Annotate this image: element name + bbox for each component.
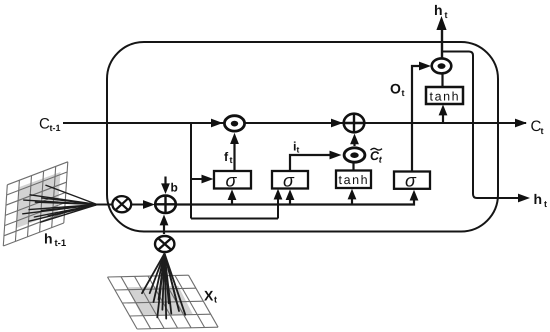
arrowhead into add node — [331, 119, 343, 128]
wire: conv product to add(b) — [132, 204, 144, 206]
convolution fan from x grid — [142, 254, 185, 319]
wire: peephole branch arrow into sigma1 left — [191, 178, 203, 180]
output product node — [432, 58, 452, 73]
wire: peephole bottom rail — [191, 218, 278, 220]
wire: h_t up output arrow — [441, 28, 443, 58]
svg-text:t: t — [297, 145, 300, 155]
add node (bias) — [155, 196, 176, 213]
svg-text:σ: σ — [283, 171, 295, 191]
gate sigma2 (input gate) — [272, 171, 308, 191]
svg-text:t-1: t-1 — [50, 123, 61, 133]
wire: bus branch arrow into sigma1 — [231, 198, 233, 205]
wire: peephole rail up into sigma2 — [277, 196, 279, 219]
gate tanh (output squash) — [426, 87, 463, 104]
arrowhead to C_t output — [515, 119, 527, 128]
wire: i_t from sigma2 top to candidate product — [290, 155, 330, 171]
wire: h_t-1 into conv product — [95, 204, 113, 206]
wire: C line up into tanh — [442, 114, 444, 123]
svg-text:h: h — [44, 231, 53, 247]
gate sigma1 (forget gate) — [214, 171, 251, 191]
svg-text:σ: σ — [405, 171, 417, 191]
gate sigma3 (output gate) — [394, 171, 430, 191]
svg-text:t: t — [541, 126, 544, 136]
product node (forget) — [224, 116, 244, 131]
wire: candidate product up into add node — [353, 142, 355, 146]
wire: tanh gate up to candidate product — [352, 163, 354, 171]
svg-text:O: O — [390, 81, 401, 97]
svg-text:t: t — [379, 155, 383, 165]
wire: f_t arrow from sigma1 up to forget product — [233, 142, 235, 171]
arrowhead into forget product — [211, 119, 223, 128]
wire: bias b arrow down into add node — [164, 177, 166, 186]
svg-text:h: h — [434, 2, 443, 18]
wire: C_t-1 main horizontal cell-state line — [63, 122, 526, 124]
wire: bus branch arrow into sigma2 — [289, 198, 291, 205]
wire: bus branch arrow into tanh gate — [351, 198, 353, 205]
wire: recurrent loop from h_t line to right-bottom output — [442, 52, 518, 199]
svg-text:b: b — [171, 181, 178, 195]
wire: input bus from add(b) node to gates — [175, 198, 414, 205]
svg-text:t: t — [214, 295, 217, 305]
svg-text:h: h — [534, 191, 543, 207]
add node on C line — [344, 114, 365, 133]
conv product (W_h * h) — [112, 196, 131, 212]
wire: x conv product up into add node — [163, 225, 165, 234]
conv product (W_x * x) — [155, 236, 174, 252]
svg-text:tanh: tanh — [430, 90, 461, 104]
svg-text:X: X — [204, 288, 214, 304]
svg-text:f: f — [224, 150, 229, 164]
svg-text:σ: σ — [226, 171, 238, 191]
wire: O_t line from sigma3 up and into output product — [412, 66, 420, 172]
svg-text:tanh: tanh — [339, 173, 370, 187]
convolution fan from h grid — [23, 185, 97, 222]
svg-text:t: t — [402, 88, 405, 98]
gate tanh (candidate) — [336, 171, 371, 189]
wire: peephole vertical from C line — [190, 123, 192, 219]
x_t input grid (feature map) — [108, 275, 219, 329]
svg-text:t: t — [230, 155, 233, 165]
label C~_t — [371, 148, 383, 150]
wire: tanh to output product — [441, 74, 443, 87]
svg-text:C: C — [39, 116, 50, 133]
h_t-1 input grid (feature map) — [3, 162, 68, 246]
svg-text:t-1: t-1 — [55, 238, 67, 249]
svg-text:t: t — [544, 199, 547, 209]
svg-text:t: t — [445, 10, 448, 20]
product node (input x candidate) — [344, 148, 365, 162]
LSTM cell boundary (rounded rectangle) — [107, 42, 498, 232]
